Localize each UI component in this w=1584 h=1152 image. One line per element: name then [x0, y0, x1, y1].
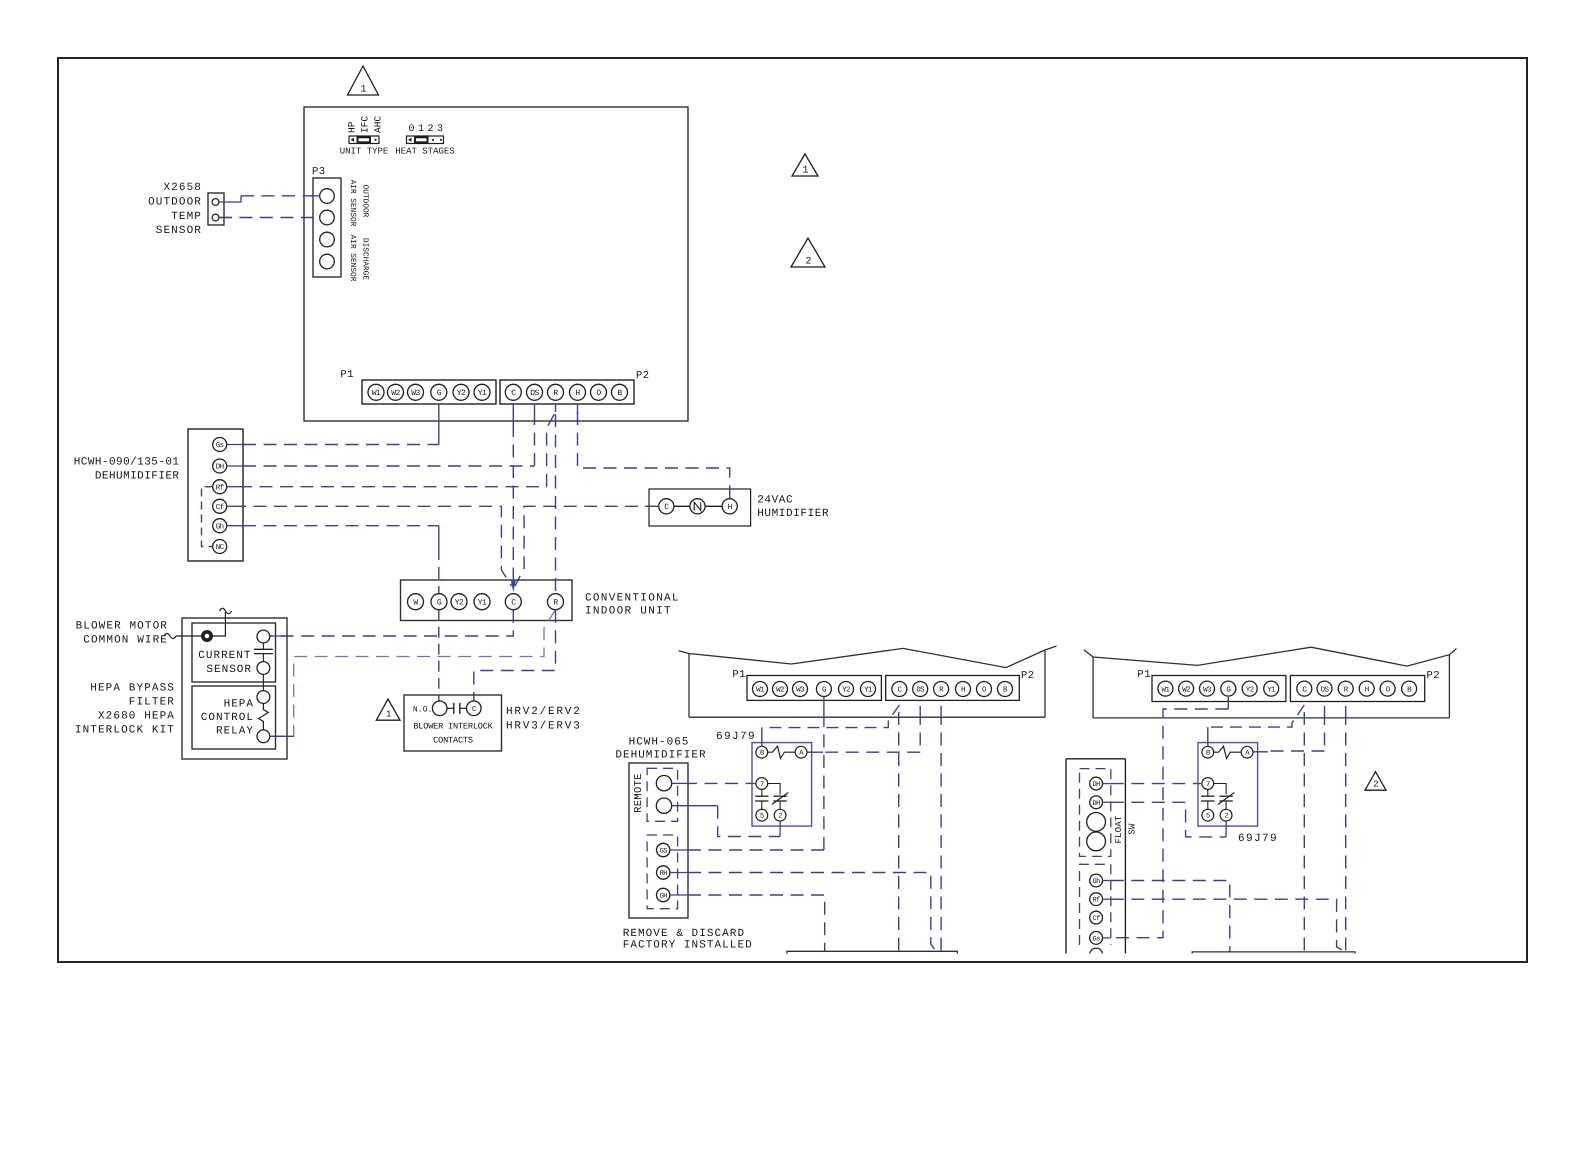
right terminal Gs: [1090, 932, 1103, 945]
label N.O.: [413, 705, 433, 714]
svg-text:2: 2: [805, 257, 811, 268]
X2658 pin 1: [212, 199, 219, 206]
right Gh group dashed box: [1080, 864, 1111, 945]
right terminal Cf: [1090, 911, 1103, 924]
svg-text:P1: P1: [1137, 669, 1151, 681]
label 24VAC HUMIDIFIER: [757, 495, 829, 521]
69J79 relay box right: [1198, 743, 1258, 827]
right P2 terminal H: [1359, 681, 1374, 696]
middle unit terminal strip P2: [886, 676, 1020, 701]
svg-text:69J79: 69J79: [1238, 833, 1278, 845]
main P2 terminal C: [505, 384, 521, 400]
right P1 terminal W2: [1179, 681, 1194, 696]
wire right DS to A: [1253, 706, 1325, 752]
terminal strip P1 main: [362, 380, 496, 404]
right P2 terminal C: [1297, 681, 1312, 696]
right terminal Gh: [1090, 874, 1103, 887]
indoor unit terminal C: [505, 594, 521, 610]
main P1 terminal W1: [368, 384, 384, 400]
69J79 right terminal 5: [1202, 809, 1214, 821]
svg-text:P3: P3: [312, 166, 326, 178]
wire RH down to jumper box: [670, 873, 936, 952]
svg-text:SENSOR: SENSOR: [156, 225, 202, 237]
interlock terminal NO: [432, 701, 447, 716]
24VAC humidifier box: [649, 489, 751, 526]
svg-text:Y1: Y1: [478, 599, 487, 608]
indoor unit terminal W: [408, 594, 424, 610]
X2658 pin 2: [212, 214, 219, 221]
svg-text:W3: W3: [796, 686, 805, 695]
right dehumidifier column box: [1066, 759, 1125, 954]
69J79 middle terminal 5: [756, 809, 768, 821]
wire X2658 pin1 to P3 pin1: [219, 196, 320, 202]
HCWH-090 terminal Cf: [213, 499, 227, 513]
svg-text:1: 1: [802, 166, 808, 177]
label OUTDOOR AIR SENSOR: [348, 180, 370, 227]
HEPA relay coil zigzag: [259, 703, 269, 730]
middle P2 terminal B: [998, 682, 1013, 697]
svg-text:GS: GS: [660, 848, 668, 856]
svg-text:1: 1: [386, 710, 391, 720]
right P1 terminal G: [1221, 681, 1236, 696]
REMOTE terminal 2: [656, 798, 671, 813]
main P2 terminal DS: [527, 384, 543, 400]
svg-text:Y1: Y1: [864, 687, 873, 695]
svg-text:INDOOR UNIT: INDOOR UNIT: [585, 606, 672, 618]
svg-text:FACTORY INSTALLED: FACTORY INSTALLED: [623, 940, 753, 952]
wire current sensor to indoor C stub: [270, 635, 287, 637]
label 69J79 right: [1238, 833, 1278, 845]
right unit terminal strip P2: [1290, 676, 1424, 702]
svg-text:5: 5: [1206, 813, 1210, 821]
svg-text:Y2: Y2: [455, 599, 464, 608]
wire middle R column down: [940, 706, 942, 952]
svg-text:DS: DS: [1321, 685, 1330, 694]
right P2 label: [1427, 670, 1441, 682]
69J79 middle heater element: [768, 746, 796, 758]
svg-text:Gs: Gs: [216, 441, 224, 450]
label REMOTE rotated: [633, 773, 645, 813]
wire GS to middle G: [670, 697, 824, 851]
svg-text:Gh: Gh: [1092, 877, 1100, 886]
middle P1 terminal W1: [753, 682, 768, 697]
humidifier internal links: [674, 505, 722, 507]
69J79 middle terminal 7: [756, 778, 768, 790]
main P1 terminal Y1: [474, 384, 490, 400]
blower interlock contacts box: [404, 695, 502, 751]
right P2 terminal B: [1402, 681, 1417, 696]
current transformer dot: [201, 630, 213, 642]
wire indoor G to interlock NO: [438, 610, 440, 701]
svg-text:HEPA BYPASS: HEPA BYPASS: [90, 683, 175, 695]
svg-text:24VAC: 24VAC: [757, 495, 793, 507]
middle P2 terminal DS: [913, 682, 928, 697]
wire middle C to B: [762, 705, 900, 746]
right float switch circle 2: [1087, 832, 1106, 851]
HCWH-090 dehumidifier box: [188, 429, 243, 561]
HCWH-065 terminal RH: [657, 866, 670, 879]
humidifier terminal C: [659, 499, 674, 514]
middle P1 terminal W3: [793, 682, 808, 697]
HEPA interlock kit outer box: [182, 618, 287, 759]
svg-text:H: H: [961, 687, 965, 695]
svg-text:W1: W1: [1161, 686, 1170, 694]
svg-text:Rf: Rf: [216, 483, 225, 492]
main P1 terminal W3: [408, 384, 424, 400]
svg-text:OUTDOOR: OUTDOOR: [361, 185, 370, 218]
svg-text:Y2: Y2: [842, 686, 850, 695]
svg-text:Y1: Y1: [1267, 686, 1276, 694]
svg-text:X2658: X2658: [163, 182, 202, 194]
svg-text:REMOVE & DISCARD: REMOVE & DISCARD: [623, 928, 745, 940]
right unit terminal strip P1: [1152, 676, 1286, 702]
flag note triangle 1 at interlock: [376, 699, 400, 720]
69J79 middle variable capacitor: [768, 784, 789, 810]
wire Rf to main R: [227, 404, 556, 487]
svg-text:W3: W3: [411, 389, 420, 398]
svg-text:2: 2: [1224, 813, 1228, 821]
HCWH-090 terminal Gh: [213, 519, 227, 533]
svg-text:1: 1: [418, 124, 424, 135]
label CONVENTIONAL INDOOR UNIT: [585, 593, 680, 618]
label REMOVE & DISCARD FACTORY INSTALLED: [623, 928, 753, 952]
svg-text:P2: P2: [1427, 670, 1441, 682]
right DH dashed group box: [1080, 769, 1111, 857]
indoor unit terminal Y1: [474, 594, 490, 610]
svg-text:B: B: [1206, 750, 1210, 758]
humidifier transformer symbol: [690, 499, 705, 514]
right P2 terminal DS: [1317, 681, 1332, 696]
svg-text:W2: W2: [776, 686, 784, 695]
connector X2658: [208, 193, 224, 225]
HCWH-090 terminal NC: [213, 540, 227, 554]
69J79 middle terminal 2: [774, 809, 786, 821]
middle P2 terminal H: [956, 682, 971, 697]
wire humidifier C to indoor C: [515, 506, 659, 586]
svg-text:P2: P2: [1021, 670, 1035, 682]
middle P1 terminal W2: [773, 682, 788, 697]
svg-text:HRV3/ERV3: HRV3/ERV3: [506, 721, 582, 733]
svg-text:COMMON WIRE: COMMON WIRE: [83, 635, 168, 647]
69J79 relay box middle: [752, 743, 812, 827]
main P1 terminal G: [431, 384, 447, 400]
right unit outline with torn top: [1084, 647, 1457, 718]
svg-text:SW: SW: [1128, 823, 1138, 835]
svg-text:CURRENT: CURRENT: [198, 650, 251, 662]
svg-text:7: 7: [760, 781, 764, 789]
wire indoor C to current sensor: [270, 610, 514, 636]
svg-text:HCWH-065: HCWH-065: [629, 737, 690, 749]
main P1 terminal W2: [388, 384, 404, 400]
main P1 terminal Y2: [453, 384, 469, 400]
label HCWH-090/135-01 DEHUMIDIFIER: [74, 457, 180, 483]
terminal strip P2 label: [636, 370, 650, 382]
indoor unit terminal R: [548, 594, 564, 610]
svg-text:DS: DS: [916, 686, 925, 695]
svg-text:Cf: Cf: [216, 503, 225, 512]
HCWH-090 terminal Gs: [213, 438, 227, 452]
wire indoor R to interlock C: [474, 610, 556, 701]
middle unit terminal strip P1: [747, 676, 881, 701]
link current sensor to relay: [262, 674, 264, 690]
svg-text:HCWH-090/135-01: HCWH-090/135-01: [74, 457, 180, 469]
label HEPA BYPASS FILTER X2680 HEPA INTERLOCK KIT: [75, 683, 175, 737]
middle P2 terminal O: [977, 682, 992, 697]
label 69J79 middle: [716, 731, 756, 743]
wire Cf to indoor C: [227, 506, 512, 586]
HCWH-065 box: [629, 763, 688, 918]
svg-text:OUTDOOR: OUTDOOR: [148, 197, 202, 209]
svg-text:FLOAT: FLOAT: [1114, 815, 1124, 843]
HEPA control relay box: [192, 686, 276, 749]
wire right G to Gs: [1110, 697, 1228, 938]
flag note triangle 2 right: [791, 238, 825, 268]
humidifier terminal H: [722, 499, 737, 514]
current sensor capacitor symbol: [254, 643, 273, 662]
wire GH down to jumper box: [670, 895, 825, 951]
69J79 middle capacitor: [755, 789, 768, 809]
svg-text:DH: DH: [216, 464, 224, 472]
main P2 terminal B: [612, 384, 628, 400]
svg-text:5: 5: [760, 813, 764, 821]
UNIT TYPE switch: [340, 136, 389, 157]
right P1 label: [1137, 669, 1151, 681]
svg-text:CONVENTIONAL: CONVENTIONAL: [585, 593, 680, 605]
wire HEPA relay stub right: [270, 735, 294, 737]
HEPA relay terminal bottom: [257, 730, 270, 743]
69J79 right terminal 2: [1220, 809, 1232, 821]
connector P3 label: [312, 166, 326, 178]
svg-text:Cf: Cf: [1092, 914, 1100, 923]
svg-text:SENSOR: SENSOR: [206, 664, 252, 676]
svg-text:HP: HP: [347, 121, 358, 133]
svg-text:GH: GH: [660, 893, 668, 901]
wire right Gh down to jumper box: [1103, 881, 1230, 952]
indoor unit terminal G: [431, 594, 447, 610]
svg-text:BLOWER INTERLOCK: BLOWER INTERLOCK: [413, 722, 493, 732]
svg-text:W3: W3: [1203, 685, 1212, 694]
svg-text:UNIT TYPE: UNIT TYPE: [340, 147, 389, 157]
HCWH-090 terminal DH: [213, 459, 227, 473]
flag note triangle 1 right: [792, 154, 818, 177]
wire main H to humidifier H: [578, 404, 730, 499]
current sensor terminal top: [257, 630, 270, 643]
HCWH-065 terminal GH: [657, 888, 670, 901]
svg-text:DEHUMIDIFIER: DEHUMIDIFIER: [95, 471, 180, 483]
svg-text:CONTROL: CONTROL: [201, 712, 254, 724]
svg-text:Rf: Rf: [1092, 896, 1100, 905]
svg-text:AIR SENSOR: AIR SENSOR: [348, 180, 357, 227]
wire middle C column down: [898, 712, 900, 951]
right P1 terminal W3: [1200, 681, 1215, 696]
svg-text:HUMIDIFIER: HUMIDIFIER: [757, 508, 829, 520]
svg-text:AHC: AHC: [373, 116, 384, 133]
connector P3: [313, 178, 341, 277]
svg-text:DH: DH: [1092, 800, 1100, 808]
label BLOWER MOTOR COMMON WIRE: [76, 621, 168, 647]
svg-text:W1: W1: [372, 389, 381, 398]
69J79 right terminal A: [1241, 746, 1253, 758]
main P2 terminal R: [548, 384, 564, 400]
svg-text:H: H: [1365, 686, 1369, 694]
svg-text:N.O.: N.O.: [413, 705, 433, 714]
69J79 right terminal B: [1202, 746, 1214, 758]
right terminal DH 1: [1090, 777, 1103, 790]
wire current dot up with squiggle: [213, 608, 232, 636]
label HCWH-065 DEHUMIDIFIER: [615, 737, 706, 762]
svg-text:AIR SENSOR: AIR SENSOR: [348, 235, 357, 282]
HCWH-090 terminal Rf: [213, 480, 227, 494]
69J79 right terminal 7: [1202, 778, 1214, 790]
69J79 right variable capacitor: [1214, 784, 1235, 810]
svg-text:P1: P1: [340, 369, 354, 381]
wire main R to indoor R: [555, 414, 557, 594]
svg-text:Y2: Y2: [1246, 685, 1254, 694]
main control board outline: [304, 107, 688, 421]
svg-text:CONTACTS: CONTACTS: [433, 736, 473, 746]
right P1 terminal W1: [1158, 681, 1173, 696]
interlock terminal C: [467, 701, 482, 716]
middle unit outline with torn top: [679, 646, 1057, 717]
label CURRENT SENSOR: [198, 650, 252, 676]
middle P1 terminal G: [816, 682, 831, 697]
69J79 middle terminal A: [795, 746, 807, 758]
main P2 terminal O: [591, 384, 607, 400]
GS RH GH dashed group box: [647, 835, 678, 909]
svg-text:W2: W2: [391, 389, 400, 398]
middle P2 label: [1021, 670, 1035, 682]
wire REMOTE2 to 69J79 2: [672, 806, 780, 837]
svg-text:2: 2: [427, 124, 433, 135]
svg-text:HRV2/ERV2: HRV2/ERV2: [506, 706, 582, 718]
wire right DH1 to 69J79 7: [1103, 783, 1202, 785]
wire right C to B: [1208, 705, 1305, 746]
main P2 terminal H: [570, 384, 586, 400]
svg-text:2: 2: [778, 813, 782, 821]
svg-text:2: 2: [1373, 780, 1378, 790]
svg-text:DEHUMIDIFIER: DEHUMIDIFIER: [615, 750, 706, 762]
svg-text:Y2: Y2: [457, 389, 466, 398]
svg-text:B: B: [760, 750, 764, 758]
REMOTE terminal 1: [656, 776, 671, 791]
svg-text:INTERLOCK KIT: INTERLOCK KIT: [75, 725, 175, 737]
middle P1 label: [732, 669, 746, 681]
svg-text:DH: DH: [1092, 781, 1100, 789]
svg-text:0: 0: [408, 124, 414, 135]
indoor unit terminal Y2: [451, 594, 467, 610]
right float switch circle 1: [1087, 813, 1106, 832]
69J79 right capacitor: [1201, 789, 1214, 809]
HCWH-065 terminal GS: [657, 843, 670, 856]
label HRV2/ERV2 HRV3/ERV3: [506, 706, 582, 733]
P3 pin 3: [320, 232, 335, 247]
right jumper box cut at border: [1192, 952, 1355, 957]
middle P2 terminal R: [934, 682, 949, 697]
svg-text:Y1: Y1: [478, 389, 487, 398]
current sensor terminal bottom: [257, 662, 270, 675]
current sensor box: [192, 623, 276, 682]
wire Gs to main G: [227, 404, 439, 445]
right P2 terminal R: [1338, 681, 1353, 696]
wire DH to main DS: [227, 404, 535, 466]
svg-text:W1: W1: [756, 687, 765, 695]
svg-text:W2: W2: [1182, 685, 1190, 694]
svg-text:Gh: Gh: [216, 522, 224, 531]
svg-text:TEMP: TEMP: [171, 211, 202, 223]
svg-text:P1: P1: [732, 669, 746, 681]
wire middle DS to A: [807, 706, 920, 752]
svg-text:BLOWER MOTOR: BLOWER MOTOR: [76, 621, 168, 633]
right terminal Rf: [1090, 893, 1103, 906]
jumper Rf to NC inside HCWH-090: [202, 487, 213, 547]
label FLOAT SW rotated: [1114, 815, 1138, 843]
wire indoor R to HEPA relay: [270, 610, 556, 737]
svg-text:Gs: Gs: [1092, 935, 1100, 943]
HEAT STAGES switch: [395, 136, 454, 157]
right terminal DH 2: [1090, 796, 1103, 809]
blower common wire lead with break: [164, 634, 201, 639]
flag note triangle 1 above board: [348, 66, 379, 96]
svg-text:HEPA: HEPA: [224, 699, 254, 711]
label DISCHARGE AIR SENSOR: [348, 235, 370, 282]
wire REMOTE1 to 69J79 7: [672, 782, 756, 784]
terminal strip P2 main: [500, 380, 634, 404]
label HEPA CONTROL RELAY: [201, 699, 254, 738]
interlock contact symbol: [447, 703, 467, 714]
wire right C column down: [1303, 712, 1305, 952]
HEAT STAGES switch labels 0 1 2 3: [408, 124, 443, 135]
svg-text:FILTER: FILTER: [129, 697, 175, 709]
wire right R column down: [1345, 706, 1347, 952]
svg-text:3: 3: [437, 124, 443, 135]
middle P1 terminal Y2: [839, 682, 854, 697]
svg-text:1: 1: [360, 85, 366, 96]
UNIT TYPE switch labels HP IFC AHC: [347, 116, 384, 133]
P3 pin 2: [320, 210, 335, 225]
svg-text:X2680 HEPA: X2680 HEPA: [98, 711, 175, 723]
69J79 right heater element: [1214, 746, 1242, 758]
middle P2 terminal C: [892, 682, 907, 697]
wire X2658 pin2 to P3 pin2: [219, 217, 320, 219]
wire main C to indoor C with arrow: [511, 404, 516, 592]
svg-text:7: 7: [1206, 781, 1210, 789]
svg-text:DS: DS: [530, 389, 539, 398]
terminal strip P1 label: [340, 369, 354, 381]
svg-text:IFC: IFC: [360, 116, 371, 133]
wire right DH2 to 69J79 2: [1103, 802, 1227, 837]
svg-text:RH: RH: [660, 870, 668, 878]
wire right Rf down to jumper box: [1103, 899, 1346, 952]
wire Gh to indoor G: [227, 526, 439, 594]
svg-text:NC: NC: [216, 543, 225, 552]
svg-text:RELAY: RELAY: [216, 726, 254, 738]
conventional indoor unit box: [401, 580, 573, 621]
middle jumper box cut at border: [787, 951, 957, 957]
69J79 middle terminal B: [756, 746, 768, 758]
HEPA relay terminal top: [257, 691, 270, 704]
P3 pin 1: [320, 189, 335, 204]
svg-text:REMOTE: REMOTE: [633, 773, 645, 813]
wire right Gs stub: [1103, 937, 1111, 939]
right P1 terminal Y2: [1242, 681, 1257, 696]
svg-text:69J79: 69J79: [716, 731, 756, 743]
REMOTE dashed group box: [647, 768, 678, 821]
svg-text:HEAT STAGES: HEAT STAGES: [395, 147, 454, 157]
right P1 terminal Y1: [1264, 681, 1279, 696]
P3 pin 4: [320, 254, 335, 269]
flag note triangle 2 at right unit: [1365, 772, 1386, 791]
svg-text:DISCHARGE: DISCHARGE: [361, 238, 370, 280]
